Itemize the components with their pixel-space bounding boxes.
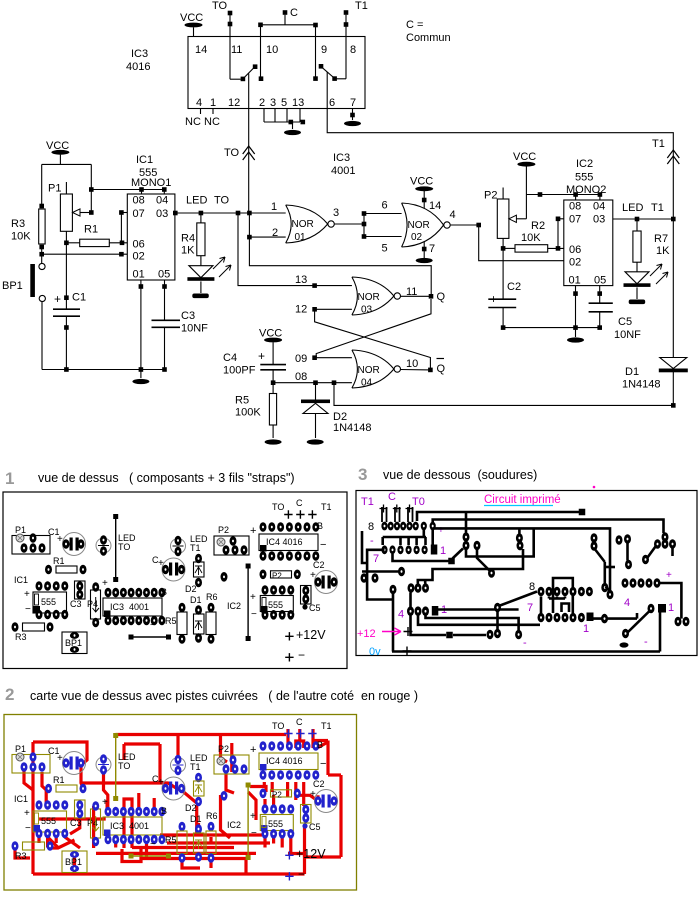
svg-text:Q: Q xyxy=(437,291,446,303)
NOR gate 02 xyxy=(402,203,444,247)
svg-text:+: + xyxy=(250,744,256,756)
svg-text:R3: R3 xyxy=(11,218,25,230)
svg-text:B: B xyxy=(161,587,167,597)
wire pin6 to T1 line xyxy=(327,72,673,405)
wire NOR4 input 08 net xyxy=(273,382,352,384)
wire pin7 to ground xyxy=(352,109,354,121)
svg-text:05: 05 xyxy=(158,269,170,281)
svg-text:03: 03 xyxy=(156,208,168,220)
wire P1 wiper from VCC xyxy=(90,164,92,212)
svg-text:−: − xyxy=(298,867,305,881)
view3 trace square right xyxy=(437,608,519,611)
svg-text:1: 1 xyxy=(583,623,589,635)
view3 mid pads column xyxy=(463,532,470,542)
svg-text:3: 3 xyxy=(358,465,367,484)
svg-text:555: 555 xyxy=(268,600,283,610)
svg-text:+12: +12 xyxy=(357,628,376,640)
cross-coupling wire input12 to Qbar xyxy=(315,312,431,370)
view3 trace row A pad8 down to square xyxy=(431,530,434,545)
svg-text:R3: R3 xyxy=(15,632,27,642)
svg-text:04: 04 xyxy=(593,201,605,213)
view3 diagonal into row xyxy=(500,592,537,606)
svg-text:C5: C5 xyxy=(309,822,321,832)
svg-text:7: 7 xyxy=(527,602,533,614)
svg-text:R4: R4 xyxy=(181,233,195,245)
svg-text:C: C xyxy=(296,498,303,508)
wire pins 07-06 tie xyxy=(120,213,122,243)
signal arrow T1 right xyxy=(667,150,679,164)
svg-text:C: C xyxy=(296,717,303,727)
view3 bottom rail xyxy=(392,650,660,653)
svg-text:−: − xyxy=(320,539,326,551)
svg-text:9: 9 xyxy=(321,44,327,56)
svg-text:12: 12 xyxy=(228,97,240,109)
svg-text:8: 8 xyxy=(350,44,356,56)
svg-text:07: 07 xyxy=(133,208,145,220)
wire T1 to switch S2 xyxy=(345,15,347,79)
svg-text:Commun: Commun xyxy=(406,32,451,44)
svg-text:NOR: NOR xyxy=(358,292,380,303)
svg-text:C1: C1 xyxy=(72,292,86,304)
PCB LED T1 footprint xyxy=(171,539,186,554)
wire pin01 to ground xyxy=(140,280,142,370)
svg-text:−: − xyxy=(251,609,257,620)
wire NOR1 out to NOR2 inputs xyxy=(334,223,364,225)
PCB LED T1 footprint xyxy=(171,758,186,773)
svg-text:1: 1 xyxy=(440,545,446,557)
svg-text:+: + xyxy=(54,292,61,306)
PCB view 2 frame xyxy=(4,715,357,891)
LED D-TO xyxy=(189,266,213,278)
NOR gate 03 xyxy=(352,277,394,315)
svg-text:IC2: IC2 xyxy=(227,601,241,611)
svg-text:08: 08 xyxy=(295,371,307,383)
svg-text:C2: C2 xyxy=(313,779,325,789)
svg-text:07: 07 xyxy=(569,214,581,226)
svg-text:1: 1 xyxy=(5,469,14,488)
wire 08-04 tie IC2 xyxy=(526,194,600,196)
svg-text:IC4 4016: IC4 4016 xyxy=(266,537,303,547)
view3 left edge vertical xyxy=(362,531,367,563)
svg-text:T1: T1 xyxy=(651,202,664,214)
LED light arrows xyxy=(213,257,225,269)
wire R3 to BP1 xyxy=(41,247,43,264)
wire pin03 output xyxy=(175,212,286,214)
svg-text:10K: 10K xyxy=(521,232,541,244)
switch S2 inside 4016 (pins 9-6-8) xyxy=(319,64,324,69)
svg-text:P2: P2 xyxy=(272,791,282,800)
LED light arrows T1 xyxy=(650,264,662,276)
view3 long trace L2 xyxy=(433,520,664,534)
svg-text:10: 10 xyxy=(406,358,418,370)
svg-text:P4: P4 xyxy=(87,599,98,609)
svg-text:C3: C3 xyxy=(70,818,82,828)
svg-text:TO: TO xyxy=(214,195,230,207)
svg-text:+: + xyxy=(24,589,30,600)
wire pin10 vertical xyxy=(260,25,262,79)
view3 stub xyxy=(606,587,611,592)
svg-text:1K: 1K xyxy=(181,245,195,257)
view3 square pad pin1 xyxy=(431,545,438,555)
svg-text:P2: P2 xyxy=(218,744,229,754)
wire NOR1 input2 feedback from Q xyxy=(247,235,252,240)
svg-text:+: + xyxy=(250,811,256,822)
svg-text:04: 04 xyxy=(361,378,373,389)
switch S1 inside 4016 (pins 11-12) xyxy=(241,77,246,82)
svg-text:14: 14 xyxy=(195,44,207,56)
svg-text:TO: TO xyxy=(272,502,284,512)
ground symbol IC1 xyxy=(140,370,142,379)
wire NOR3 input 12 xyxy=(315,308,352,310)
view3 row M1 pads xyxy=(390,585,397,595)
svg-text:B: B xyxy=(317,740,323,750)
svg-text:NOR: NOR xyxy=(408,220,430,231)
PCB capacitor C5 xyxy=(301,586,312,605)
pins 4 1 NC stubs xyxy=(200,109,202,115)
ground at 4001 pin 7 xyxy=(423,242,425,258)
svg-text:D2: D2 xyxy=(185,803,197,813)
svg-text:R2: R2 xyxy=(531,220,545,232)
LED terminal bar xyxy=(192,294,209,299)
svg-text:LED: LED xyxy=(186,195,207,207)
svg-text:IC3: IC3 xyxy=(333,152,350,164)
svg-text:IC2: IC2 xyxy=(576,158,593,170)
wire NOR2 output to IC2 pin02 xyxy=(450,224,479,226)
svg-text:10: 10 xyxy=(266,44,278,56)
svg-text:1N4148: 1N4148 xyxy=(333,422,372,434)
svg-text:-: - xyxy=(523,637,527,649)
svg-text:C: C xyxy=(290,7,298,19)
svg-text:R5: R5 xyxy=(165,835,177,845)
svg-text:10K: 10K xyxy=(11,231,31,243)
svg-text:1: 1 xyxy=(210,97,216,109)
wire NOR4 output Qbar xyxy=(401,369,431,371)
svg-text:T0: T0 xyxy=(412,496,425,508)
svg-text:P2: P2 xyxy=(272,572,282,581)
wires pins 2 3 5 13 to ground bus xyxy=(263,109,265,123)
svg-text:D1: D1 xyxy=(190,814,202,824)
svg-text:6: 6 xyxy=(329,97,335,109)
svg-text:P1: P1 xyxy=(15,744,26,754)
wire P1 to R1 and C1 xyxy=(65,231,67,309)
svg-text:IC1: IC1 xyxy=(14,575,28,585)
svg-text:10NF: 10NF xyxy=(181,323,208,335)
svg-text:0v: 0v xyxy=(369,646,381,658)
svg-text:IC2: IC2 xyxy=(227,820,241,830)
PCB pushbutton BP1 xyxy=(62,851,87,873)
view3 row M2 pads xyxy=(407,606,414,616)
svg-text:P2: P2 xyxy=(484,190,497,202)
svg-text:02: 02 xyxy=(411,232,423,243)
view3 right cluster pads xyxy=(662,532,669,542)
ground rail bottom left xyxy=(42,369,165,371)
ground at R5 xyxy=(265,439,282,444)
PCB view 1 frame xyxy=(3,492,347,669)
svg-text:R5: R5 xyxy=(235,395,249,407)
svg-text:C2: C2 xyxy=(313,560,325,570)
svg-text:C =: C = xyxy=(406,19,423,31)
wire pin9 vertical xyxy=(315,25,317,79)
svg-text:14: 14 xyxy=(429,200,441,212)
svg-text:−: − xyxy=(150,620,156,631)
svg-text:IC3 4001: IC3 4001 xyxy=(110,821,149,831)
svg-text:05: 05 xyxy=(594,275,606,287)
svg-text:1K: 1K xyxy=(656,245,670,257)
wire P2 bottom to R2 and C2 xyxy=(502,238,504,299)
PCB LED TO footprint xyxy=(96,757,111,772)
svg-text:6: 6 xyxy=(382,200,388,212)
LED terminal bar T1 xyxy=(629,300,646,305)
svg-text:+: + xyxy=(250,525,256,537)
svg-text:BP1: BP1 xyxy=(2,280,23,292)
view3 long left vertical to 0v rail xyxy=(392,594,395,652)
view3 center diag traces xyxy=(591,533,598,543)
svg-text:+: + xyxy=(258,349,265,363)
wire pins 07-06 tie IC2 xyxy=(557,219,559,249)
svg-text:10NF: 10NF xyxy=(614,329,641,341)
strap wire 3 xyxy=(246,564,251,569)
svg-text:R7: R7 xyxy=(654,233,668,245)
view3 bracket and riser trace xyxy=(418,549,523,584)
wire 08-node to bottom long wire xyxy=(334,383,673,406)
svg-text:01: 01 xyxy=(295,232,307,243)
wire pin01 to ground xyxy=(575,286,577,337)
svg-text:+: + xyxy=(666,570,672,581)
svg-text:T1: T1 xyxy=(652,138,665,150)
view3 long trace L1 xyxy=(417,512,579,521)
svg-text:TO: TO xyxy=(272,721,284,731)
svg-text:11: 11 xyxy=(231,44,242,56)
signal arrow TO xyxy=(243,146,255,160)
wire C to pins 10 and 9 xyxy=(284,15,286,25)
cross-coupling wire Q to NOR4 input 09 xyxy=(316,299,431,358)
view3 trace from square right xyxy=(594,617,638,620)
svg-text:−: − xyxy=(298,648,305,662)
svg-text:100K: 100K xyxy=(235,407,261,419)
ground rail IC2 xyxy=(503,327,600,329)
svg-text:D2: D2 xyxy=(185,584,197,594)
view3 left loop trace xyxy=(367,550,393,600)
PCB diode D2 xyxy=(195,554,202,564)
NOR gate 01 xyxy=(286,205,328,243)
svg-text:8: 8 xyxy=(368,521,374,533)
svg-text:4: 4 xyxy=(196,97,202,109)
svg-text:T1: T1 xyxy=(190,762,201,772)
svg-text:02: 02 xyxy=(569,257,581,269)
IC2 555 body xyxy=(564,200,613,286)
svg-text:P1: P1 xyxy=(15,525,26,535)
strap wire 2 xyxy=(129,635,134,640)
svg-text:NC: NC xyxy=(185,116,201,128)
view3 three parallel traces xyxy=(426,615,519,632)
PCB IC3 4001 footprint xyxy=(105,807,112,817)
svg-text:C: C xyxy=(388,491,396,503)
strap wire 1 xyxy=(113,514,118,519)
wire 08-04 tie to VCC xyxy=(91,189,164,191)
view3 top-left pad row A xyxy=(381,522,387,531)
svg-text:C5: C5 xyxy=(618,316,632,328)
svg-text:C2: C2 xyxy=(507,281,521,293)
IC 4016 U-IC3 body xyxy=(188,37,365,109)
svg-text:NOR: NOR xyxy=(358,365,380,376)
svg-text:03: 03 xyxy=(593,214,605,226)
svg-text:B: B xyxy=(317,521,323,531)
strap wire 2 xyxy=(129,854,134,859)
svg-text:+: + xyxy=(102,578,108,589)
svg-text:LED: LED xyxy=(622,202,643,214)
svg-text:IC1: IC1 xyxy=(14,794,28,804)
svg-text:Circuit imprimé: Circuit imprimé xyxy=(484,494,561,506)
view3 row interconnect stubs xyxy=(548,597,551,599)
small magenta dot xyxy=(593,486,596,489)
PCB P3 resistor xyxy=(271,790,292,797)
svg-text:R6: R6 xyxy=(206,811,218,821)
svg-text:TO: TO xyxy=(118,761,130,771)
PCB pushbutton BP1 xyxy=(62,632,87,654)
svg-text:06: 06 xyxy=(569,244,581,256)
svg-text:7: 7 xyxy=(373,553,379,565)
view3 long trace L3 xyxy=(434,528,610,591)
ground at D2 xyxy=(307,439,324,444)
svg-text:4: 4 xyxy=(624,597,630,609)
view3 pads small cluster xyxy=(516,533,523,543)
view3 terminal stubs xyxy=(381,507,383,522)
svg-text:P1: P1 xyxy=(48,183,61,195)
svg-text:R3: R3 xyxy=(15,851,27,861)
wire TO to switch xyxy=(229,15,231,79)
label +12V xyxy=(285,851,293,859)
svg-text:+12V: +12V xyxy=(296,628,326,642)
svg-text:+12V: +12V xyxy=(296,847,326,861)
view3 bus and row B xyxy=(383,536,426,539)
svg-text:-: - xyxy=(644,636,648,648)
ground at 4016 pins 2-13 xyxy=(284,130,301,135)
wire NOR4 input 09 xyxy=(315,357,352,359)
svg-text:+: + xyxy=(438,525,444,536)
svg-text:7: 7 xyxy=(350,97,356,109)
svg-text:3: 3 xyxy=(270,97,276,109)
svg-text:D1: D1 xyxy=(625,366,639,378)
svg-text:555: 555 xyxy=(41,816,56,826)
svg-text:555: 555 xyxy=(575,172,593,184)
wire pin03 to LED and T1 xyxy=(613,218,674,220)
svg-text:C4: C4 xyxy=(223,352,237,364)
strap wire 1 xyxy=(113,733,118,738)
svg-text:−: − xyxy=(251,828,257,839)
svg-text:1N4148: 1N4148 xyxy=(622,379,661,391)
svg-text:5: 5 xyxy=(382,243,388,255)
svg-text:carte vue de dessus avec piste: carte vue de dessus avec pistes cuivrées… xyxy=(30,689,418,703)
PCB diode D2 xyxy=(195,773,202,783)
svg-text:08: 08 xyxy=(133,195,145,207)
svg-text:VCC: VCC xyxy=(513,151,536,163)
svg-text:IC3: IC3 xyxy=(131,48,148,60)
svg-text:09: 09 xyxy=(295,353,307,365)
view3 square vertical to rail xyxy=(659,613,662,652)
label plus minus xyxy=(285,653,293,661)
svg-text:B: B xyxy=(161,806,167,816)
svg-text:R5: R5 xyxy=(165,616,177,626)
view3 row link stub xyxy=(409,593,412,608)
LED D-T1 xyxy=(625,272,649,284)
svg-text:+: + xyxy=(250,592,256,603)
PCB capacitor C3 xyxy=(75,800,86,818)
svg-text:13: 13 xyxy=(292,97,304,109)
svg-text:−: − xyxy=(150,839,156,850)
svg-text:T1: T1 xyxy=(190,543,201,553)
svg-text:TO: TO xyxy=(224,147,240,159)
svg-text:IC1: IC1 xyxy=(136,154,153,166)
svg-text:−: − xyxy=(25,604,31,615)
svg-text:R1: R1 xyxy=(84,224,98,236)
P2 wiper arrow xyxy=(509,215,517,222)
svg-text:TO: TO xyxy=(118,542,130,552)
svg-text:01: 01 xyxy=(133,269,145,281)
svg-text:R1: R1 xyxy=(53,775,65,785)
node C common xyxy=(283,10,288,15)
view3 trace row A pad7 up xyxy=(422,530,425,537)
svg-text:03: 03 xyxy=(361,305,373,316)
svg-text:5: 5 xyxy=(281,97,287,109)
svg-text:R1: R1 xyxy=(53,556,65,566)
wire branch to NOR3 input 13 xyxy=(238,213,352,286)
svg-text:IC3 4001: IC3 4001 xyxy=(110,602,149,612)
svg-text:T1: T1 xyxy=(321,721,332,731)
wire BP1 to ground rail xyxy=(41,302,43,370)
IC1 555 body xyxy=(127,194,175,280)
svg-text:TO: TO xyxy=(212,0,228,12)
svg-text:R6: R6 xyxy=(206,592,218,602)
svg-text:−: − xyxy=(25,823,31,834)
svg-text:13: 13 xyxy=(295,274,307,286)
ground symbol IC2 xyxy=(567,337,584,342)
view3 trace square mid xyxy=(393,554,449,561)
ground at 4016 pin 7 xyxy=(344,121,361,126)
NOR gate 04 xyxy=(352,350,394,388)
svg-text:VCC: VCC xyxy=(180,12,203,24)
view3 center staple trace xyxy=(553,578,573,613)
P1 wiper arrow xyxy=(73,209,81,216)
svg-text:IC4 4016: IC4 4016 xyxy=(266,756,303,766)
view3 row E pads xyxy=(622,578,629,588)
svg-text:01: 01 xyxy=(569,275,581,287)
label +12V xyxy=(285,632,293,640)
svg-text:NC: NC xyxy=(204,116,220,128)
svg-text:4: 4 xyxy=(450,209,456,221)
svg-text:4001: 4001 xyxy=(331,165,355,177)
svg-text:1: 1 xyxy=(668,602,674,614)
wire VCC rail to P1/R3 xyxy=(42,163,92,165)
PCB LED TO footprint xyxy=(96,538,111,553)
svg-text:C3: C3 xyxy=(181,310,195,322)
svg-text:T1: T1 xyxy=(361,496,374,508)
strap wire 3 xyxy=(246,783,251,788)
svg-text:NOR: NOR xyxy=(292,219,314,230)
svg-text:+: + xyxy=(24,808,30,819)
svg-text:2: 2 xyxy=(259,97,265,109)
wire pin02 to R3 xyxy=(42,253,128,255)
svg-text:100PF: 100PF xyxy=(223,365,256,377)
svg-text:1: 1 xyxy=(271,201,277,213)
svg-text:Q: Q xyxy=(437,363,446,375)
svg-text:3: 3 xyxy=(333,207,339,219)
PCB capacitor C5 xyxy=(301,805,312,824)
wire pin12 down to TO arrow xyxy=(248,74,250,214)
svg-text:D1: D1 xyxy=(190,595,202,605)
svg-text:-: - xyxy=(370,535,374,547)
svg-text:+: + xyxy=(102,797,108,808)
svg-text:T1: T1 xyxy=(355,0,368,12)
